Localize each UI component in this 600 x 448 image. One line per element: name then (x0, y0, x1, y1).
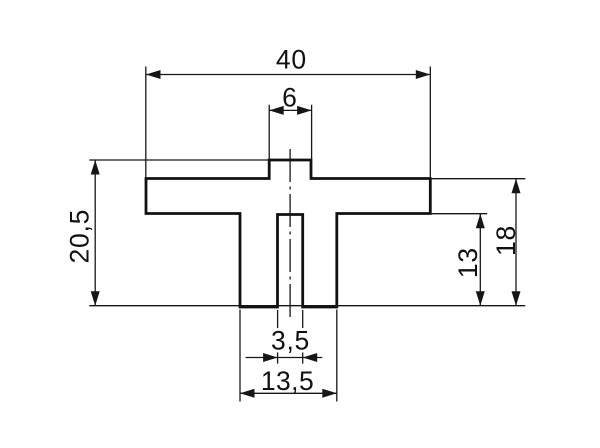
dimension 18 (432, 179, 526, 306)
svg-text:18: 18 (491, 225, 521, 256)
center line (289, 149, 291, 319)
dimension 20,5 (65, 160, 269, 306)
svg-text:3,5: 3,5 (271, 325, 310, 355)
svg-text:20,5: 20,5 (65, 209, 95, 264)
T-profile outline (146, 160, 430, 307)
bottom shared extension line (89, 305, 525, 307)
dimension 6 (269, 82, 311, 159)
dimension 3,5 (246, 310, 323, 364)
dimension 13,5 (240, 310, 337, 402)
svg-text:40: 40 (276, 45, 307, 75)
dimension 40 (146, 45, 431, 178)
svg-text:13: 13 (453, 247, 483, 278)
dimension 13 (432, 214, 488, 306)
svg-text:13,5: 13,5 (261, 366, 314, 396)
svg-text:6: 6 (282, 82, 297, 112)
